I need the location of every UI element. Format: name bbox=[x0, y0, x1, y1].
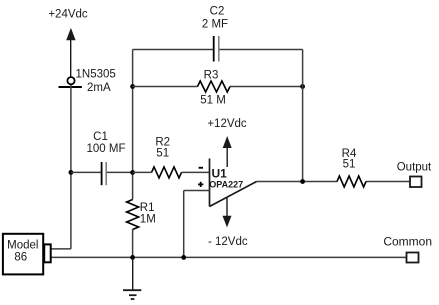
wire middle vertical (inverting node) bbox=[132, 50, 134, 200]
svg-text:51 M: 51 M bbox=[200, 95, 226, 107]
svg-text:2 MF: 2 MF bbox=[202, 18, 228, 30]
component Model 86 box bbox=[3, 234, 43, 275]
minus input sign bbox=[199, 167, 203, 169]
capacitor C2 bbox=[214, 36, 219, 62]
svg-text:R1: R1 bbox=[140, 202, 155, 214]
svg-text:U1: U1 bbox=[212, 166, 228, 180]
svg-text:+12Vdc: +12Vdc bbox=[207, 118, 247, 130]
capacitor C1 bbox=[71, 162, 133, 185]
svg-text:R3: R3 bbox=[204, 70, 219, 82]
svg-text:100 MF: 100 MF bbox=[87, 143, 126, 155]
svg-text:1M: 1M bbox=[140, 214, 156, 226]
wire output row bbox=[257, 181, 337, 183]
resistor R3 bbox=[198, 81, 231, 92]
diode D1 1N5305 (current regulator) bbox=[59, 77, 82, 87]
svg-text:86: 86 bbox=[14, 252, 27, 264]
node junction dot C1/R2 bbox=[130, 170, 135, 175]
node A junction dot (diode / C1) bbox=[69, 170, 74, 175]
svg-text:OPA227: OPA227 bbox=[209, 179, 243, 189]
terminal Common square bbox=[407, 253, 419, 263]
node non-inverting junction dot bbox=[181, 255, 186, 260]
wire top rail to C2 bbox=[133, 49, 213, 51]
svg-text:Model: Model bbox=[7, 239, 38, 251]
node junction dot R3 left bbox=[130, 84, 135, 89]
wire R3 row bbox=[133, 86, 198, 88]
svg-text:Output: Output bbox=[397, 162, 432, 174]
op-amp U1 left edge bbox=[209, 159, 211, 207]
wire left vertical from diode to C1 junction and down to Model86 bbox=[51, 85, 71, 249]
plus input sign bbox=[198, 182, 203, 187]
svg-text:2mA: 2mA bbox=[87, 82, 111, 94]
wire bottom common rail bbox=[51, 256, 407, 258]
wire non-inverting input bbox=[184, 191, 210, 258]
node ground junction dot bbox=[130, 255, 135, 260]
wire R2 row bbox=[133, 171, 152, 173]
resistor R1 bbox=[127, 200, 139, 230]
wire right vertical feedback bbox=[302, 50, 304, 182]
svg-text:C2: C2 bbox=[210, 5, 225, 17]
node output junction dot bbox=[300, 179, 305, 184]
svg-text:1N5305: 1N5305 bbox=[76, 69, 116, 81]
-12Vdc supply arrow bbox=[223, 198, 232, 228]
resistor R2 bbox=[152, 167, 182, 178]
resistor R4 bbox=[337, 176, 366, 187]
svg-text:51: 51 bbox=[343, 158, 356, 170]
svg-text:C1: C1 bbox=[93, 131, 108, 143]
svg-text:Common: Common bbox=[383, 235, 432, 249]
ground bbox=[123, 257, 141, 299]
+12Vdc supply arrow bbox=[223, 136, 232, 167]
svg-text:+24Vdc: +24Vdc bbox=[48, 8, 88, 20]
terminal Output square bbox=[410, 177, 422, 188]
svg-text:51: 51 bbox=[156, 148, 169, 160]
node junction dot R3 right bbox=[300, 84, 305, 89]
connector tab on Model 86 bbox=[44, 244, 51, 262]
op-amp U1 bottom diagonal bbox=[210, 182, 257, 207]
svg-text:- 12Vdc: - 12Vdc bbox=[208, 236, 248, 248]
+24Vdc supply arrow bbox=[66, 28, 75, 77]
